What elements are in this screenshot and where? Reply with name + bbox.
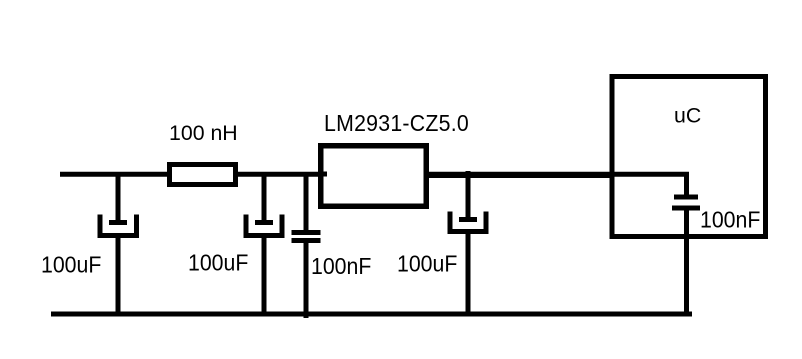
wire C1 top lead bbox=[116, 172, 121, 222]
svg-text:100 nH: 100 nH bbox=[169, 121, 238, 145]
capacitor C1 100uF (polarized) bbox=[100, 172, 137, 316]
capacitor C4 100uF (polarized) bbox=[450, 171, 486, 316]
wire stub inside regulator left pin bbox=[321, 172, 327, 177]
wire C5 top lead bbox=[684, 172, 689, 197]
C2 bottom cup plate bbox=[246, 215, 282, 236]
C1 bottom cup plate bbox=[100, 215, 137, 236]
capacitor C3 100nF (ceramic) bbox=[292, 172, 321, 318]
capacitor C2 100uF (polarized) bbox=[246, 172, 282, 316]
capacitor C5 100nF (decoupling at uC) bbox=[672, 172, 700, 316]
C5 top plate bbox=[674, 195, 698, 200]
regulator U2 LM2931 box bbox=[321, 146, 427, 207]
svg-text:100uF: 100uF bbox=[397, 251, 457, 277]
inductor L1 100nH bbox=[170, 165, 236, 185]
wire C3 bottom lead bbox=[304, 241, 309, 319]
C3 top plate bbox=[292, 230, 321, 235]
wire bottom rail GND bbox=[51, 312, 692, 317]
uC U1 box bbox=[612, 77, 766, 237]
wire C1 bottom lead bbox=[116, 236, 121, 317]
svg-text:LM2931-CZ5.0: LM2931-CZ5.0 bbox=[324, 110, 469, 136]
svg-text:100uF: 100uF bbox=[188, 250, 248, 276]
wire top rail Vin/Vout bbox=[60, 172, 689, 177]
C3 bottom plate bbox=[292, 238, 321, 243]
C2 top plate bbox=[255, 220, 273, 225]
wire C2 bottom lead bbox=[262, 236, 267, 317]
C1 top plate bbox=[109, 220, 127, 225]
svg-text:100uF: 100uF bbox=[41, 252, 101, 278]
C5 bottom plate bbox=[672, 206, 700, 211]
wire C2 top lead bbox=[262, 172, 267, 222]
wire C4 bottom lead bbox=[466, 232, 471, 317]
C4 top plate bbox=[459, 217, 477, 222]
wire C3 top lead bbox=[304, 172, 309, 232]
wire rail segment between regulator and uC bbox=[429, 173, 614, 178]
svg-text:100nF: 100nF bbox=[311, 253, 371, 279]
wire C4 top lead bbox=[466, 171, 471, 219]
svg-text:uC: uC bbox=[674, 104, 701, 128]
wire C5 bottom lead bbox=[684, 208, 689, 316]
C4 bottom cup plate bbox=[450, 212, 486, 232]
svg-text:100nF: 100nF bbox=[700, 207, 760, 233]
